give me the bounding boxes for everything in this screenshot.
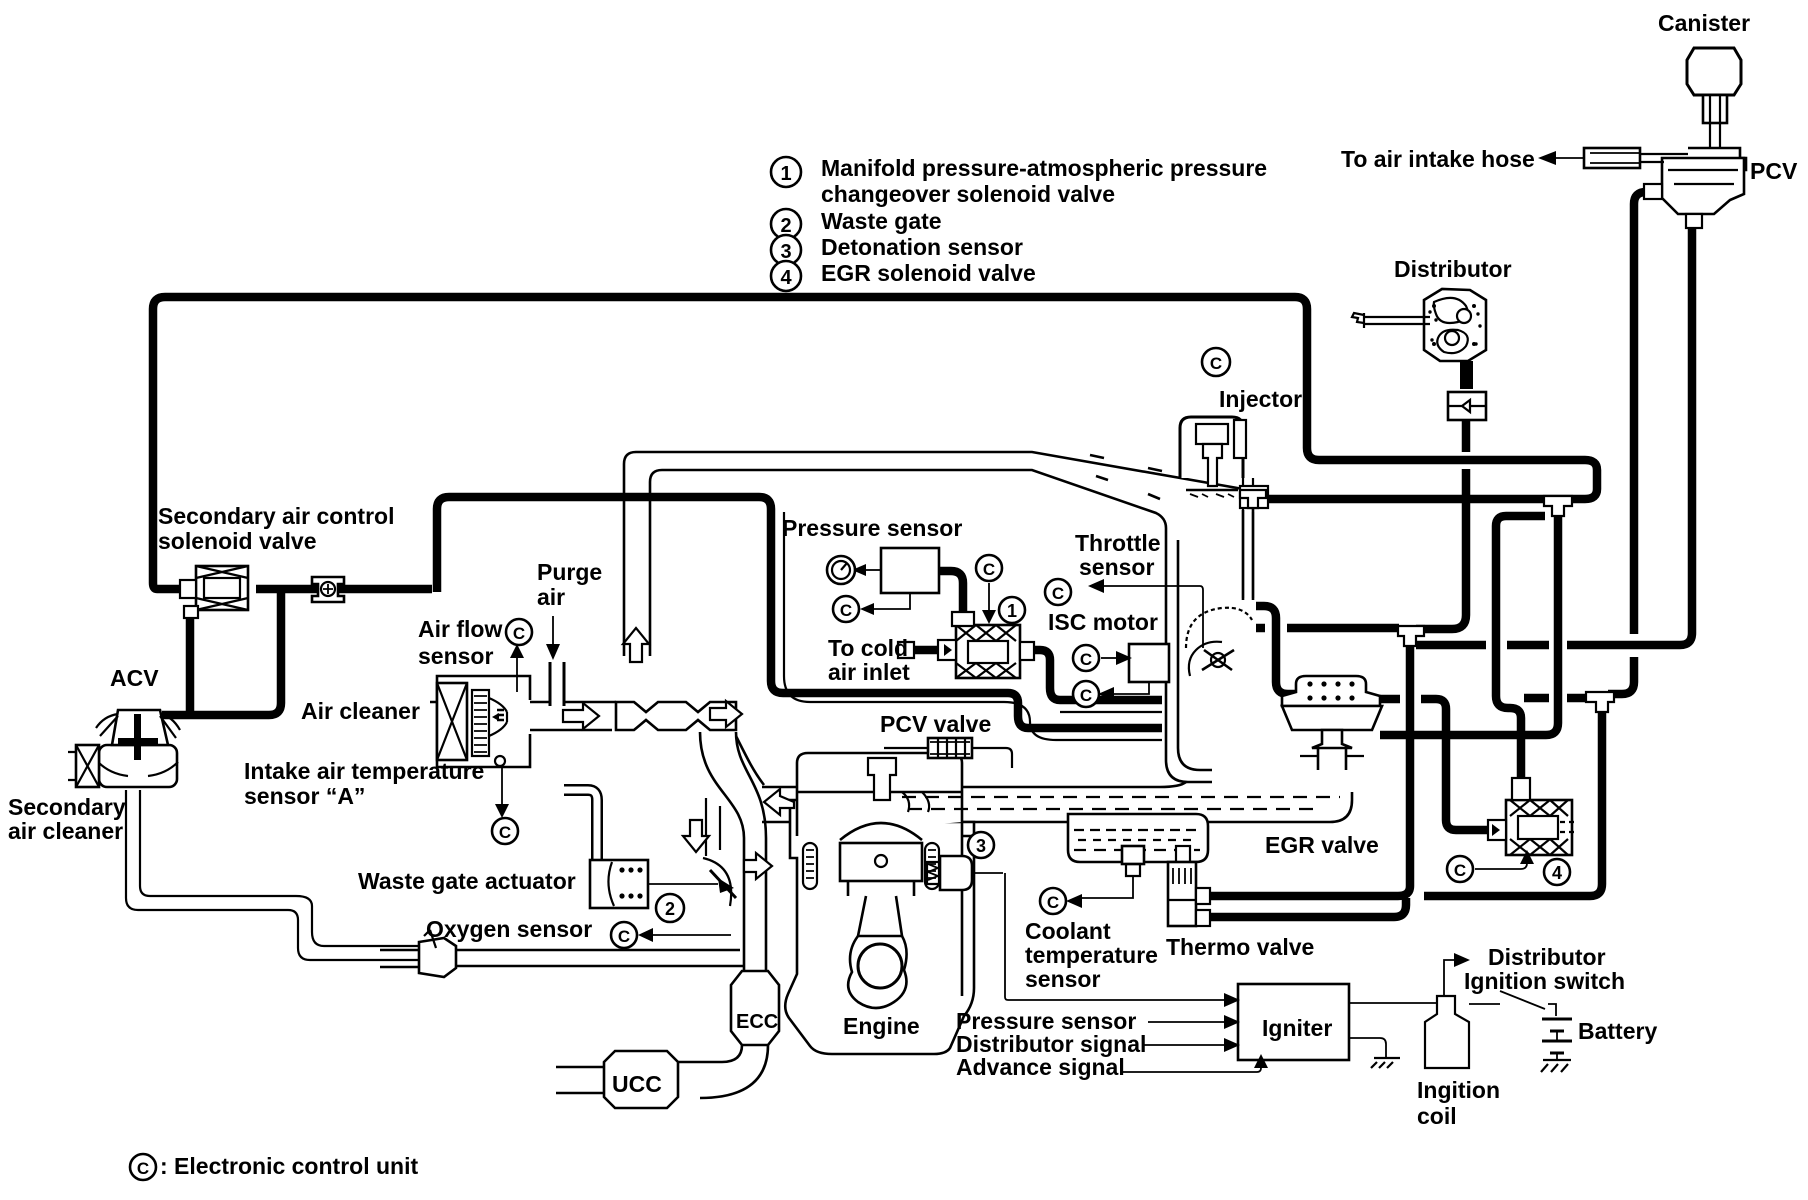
pipe purge air stub <box>549 662 566 706</box>
svg-text:C: C <box>1080 686 1092 705</box>
pipe oxygen sensor exhaust run upper <box>380 949 740 952</box>
pipe throttle-body stub pipe from injector tee <box>1243 508 1253 598</box>
pipe surge tank right wall to throttle body <box>1243 489 1253 600</box>
distributor <box>1352 289 1486 420</box>
pipe turbo up-duct outer wall and top run to surge tank <box>624 452 1243 656</box>
svg-text:C: C <box>1047 893 1059 912</box>
svg-text:air cleaner: air cleaner <box>8 818 123 844</box>
C badge ISC lower with left arrow <box>1073 681 1099 707</box>
air cleaner with air flow sensor <box>430 676 530 767</box>
ignition switch and battery <box>1469 991 1572 1072</box>
svg-text:EGR valve: EGR valve <box>1265 832 1379 858</box>
svg-text:Air cleaner: Air cleaner <box>301 698 420 724</box>
pipe intake manifold EGR dashed passage upper <box>902 796 1340 798</box>
svg-text:Detonation sensor: Detonation sensor <box>821 234 1023 260</box>
svg-text:Secondary: Secondary <box>8 794 126 820</box>
legend circled 1 <box>771 157 801 187</box>
svg-text:air inlet: air inlet <box>828 659 910 685</box>
pipe intake manifold lower wall <box>762 792 1352 822</box>
svg-text:Secondary air control: Secondary air control <box>158 503 394 529</box>
svg-text:C: C <box>499 823 511 842</box>
hose F1 tee drop to EGR bottom line <box>1380 503 1558 735</box>
pipe thin inner wall along cold-air-inlet hose <box>784 512 1162 740</box>
circled 1 at solenoid <box>999 597 1025 623</box>
pipe waste gate actuator hose <box>564 790 597 864</box>
svg-text:sensor: sensor <box>418 643 493 669</box>
svg-text:ISC motor: ISC motor <box>1048 609 1158 635</box>
PCV valve (canister) body <box>1538 148 1746 228</box>
svg-text:sensor: sensor <box>1079 554 1154 580</box>
pipe secondary air cleaner hose inner <box>140 790 420 946</box>
legend circled 4 <box>771 261 801 291</box>
C badge solenoid 4 with wire and up arrow <box>1447 856 1473 882</box>
pipe ISC duct right wall <box>1178 540 1212 770</box>
ISC motor <box>1114 644 1169 694</box>
svg-text:coil: coil <box>1417 1103 1457 1129</box>
pipe injector base down-pipe walls <box>1243 478 1253 488</box>
C badge footer <box>130 1154 156 1180</box>
hose distributor vacuum line down to T1 (break at 462 crossing) <box>1462 418 1471 452</box>
legend circled 2 <box>771 209 801 239</box>
hose F1 left arm down to solenoid 4 top port <box>1496 516 1545 786</box>
hose riser from solenoid line up to purge line <box>437 497 1162 728</box>
hose surge tank port to EGR valve left port <box>1256 606 1302 694</box>
svg-text:Ignition switch: Ignition switch <box>1464 968 1625 994</box>
injector <box>1180 417 1268 508</box>
engine block and piston <box>785 753 974 1054</box>
svg-text:ECC: ECC <box>736 1011 778 1033</box>
hose EGR valve right port to solenoid 4 left port (break at T1 stub) <box>1362 695 1400 704</box>
svg-text:Intake air temperature: Intake air temperature <box>244 758 484 784</box>
svg-text:solenoid valve: solenoid valve <box>158 528 317 554</box>
svg-text:Igniter: Igniter <box>1262 1015 1332 1041</box>
svg-text:UCC: UCC <box>612 1071 662 1097</box>
svg-text:Purge: Purge <box>537 559 602 585</box>
hose T1 stub down to thermo valve upper port <box>1198 630 1410 896</box>
purge air down arrow <box>552 616 554 646</box>
ECC catalytic converter <box>731 971 779 1045</box>
svg-text:1: 1 <box>780 163 791 185</box>
svg-text:sensor “A”: sensor “A” <box>244 783 365 809</box>
canister <box>1687 48 1741 148</box>
thermo valve <box>1168 846 1210 926</box>
hose tee on solenoid line down to ACV <box>162 591 281 715</box>
svg-text:Pressure sensor: Pressure sensor <box>782 515 962 541</box>
svg-text:C: C <box>1210 354 1222 373</box>
svg-text:temperature: temperature <box>1025 942 1158 968</box>
ACV valve assembly <box>96 710 180 787</box>
C badge oxygen sensor with left arrow <box>611 922 637 948</box>
hollow flow arrows <box>563 628 794 879</box>
svg-text:ACV: ACV <box>110 665 159 691</box>
waste gate valve flap <box>703 858 736 906</box>
solenoid valve 4 (EGR solenoid) <box>1488 778 1574 855</box>
svg-text:Engine: Engine <box>843 1013 920 1039</box>
svg-text:C: C <box>137 1159 149 1178</box>
coolant temperature sensor <box>1080 846 1144 898</box>
svg-text:3: 3 <box>976 836 986 856</box>
C badge throttle sensor with left arrow <box>1045 579 1071 605</box>
hose thermo valve lower port return <box>1198 898 1406 917</box>
ignition coil <box>1349 953 1470 1068</box>
T fitting white cores <box>1240 490 1614 712</box>
hose pressure sensor to solenoid 1 top <box>937 571 963 622</box>
svg-text:Air flow: Air flow <box>418 616 502 642</box>
svg-text:2: 2 <box>780 215 791 237</box>
hose solenoid valve output to riser T <box>256 585 432 594</box>
pipe oxygen sensor exhaust run lower <box>380 966 744 967</box>
turbocharger throttle body venturi junction <box>616 702 766 856</box>
svg-text:Waste gate actuator: Waste gate actuator <box>358 868 576 894</box>
svg-text:Throttle: Throttle <box>1075 530 1161 556</box>
C badge air flow sensor with up arrow <box>506 619 532 645</box>
svg-text:PCV valve: PCV valve <box>880 711 991 737</box>
oxygen sensor <box>419 930 456 977</box>
UCC catalytic converter <box>556 1045 768 1108</box>
svg-text:C: C <box>1052 584 1064 603</box>
C badge injector <box>1202 348 1230 376</box>
igniter box <box>1005 873 1400 1072</box>
svg-text:4: 4 <box>1552 863 1562 883</box>
inline check valve on solenoid line <box>312 577 344 602</box>
svg-text:C: C <box>1080 650 1092 669</box>
hose T1 right arm to PCV bottom port (breaks at crossing verticals) <box>1416 641 1486 650</box>
svg-text:Canister: Canister <box>1658 10 1750 36</box>
throttle sensor mechanism <box>1186 586 1252 676</box>
svg-text:Thermo valve: Thermo valve <box>1166 934 1314 960</box>
svg-text:2: 2 <box>665 899 675 919</box>
svg-text:C: C <box>618 927 630 946</box>
secondary air control solenoid valve body <box>180 566 248 618</box>
pipe exhaust downpipe walls <box>744 838 766 972</box>
svg-text:sensor: sensor <box>1025 966 1100 992</box>
svg-text:Distributor: Distributor <box>1488 944 1606 970</box>
hose secondary-air main loop: solenoid valve to injector base fitting <box>153 297 1597 589</box>
svg-text:Injector: Injector <box>1219 386 1302 412</box>
pipe intake manifold upper wall <box>762 782 1186 787</box>
hose to cold air inlet into solenoid 1 left port <box>911 646 944 655</box>
svg-text:Ingition: Ingition <box>1417 1077 1500 1103</box>
svg-text:C: C <box>513 624 525 643</box>
pipe secondary air cleaner hose outer <box>126 790 420 960</box>
circled 2 waste gate <box>656 894 684 922</box>
svg-text:changeover solenoid valve: changeover solenoid valve <box>821 181 1115 207</box>
detonation sensor <box>925 856 1003 890</box>
water jacket reservoir <box>1068 814 1208 862</box>
hose T2 stub down to thermo return line <box>1424 708 1602 896</box>
secondary air cleaner element <box>68 745 99 787</box>
pipe thin wall below solenoid1 line <box>1060 711 1162 713</box>
svg-text:4: 4 <box>780 267 792 289</box>
svg-text:air: air <box>537 584 565 610</box>
svg-text:: Electronic control unit: : Electronic control unit <box>160 1153 418 1179</box>
PCV valve on rocker cover <box>884 738 1012 768</box>
hose solenoid valve bottom port down to ACV <box>186 606 195 715</box>
svg-text:Oxygen sensor: Oxygen sensor <box>426 916 592 942</box>
svg-text:C: C <box>1454 861 1466 880</box>
svg-text:1: 1 <box>1007 601 1017 621</box>
svg-text:To cold: To cold <box>828 635 908 661</box>
hose T2 left arm (breaks at crossing verticals) <box>1524 694 1549 703</box>
pipe intake manifold EGR dashed passage lower <box>908 808 1322 810</box>
pipe air cleaner outlet duct lower wall <box>530 729 612 732</box>
svg-text:Manifold pressure-atmospheric: Manifold pressure-atmospheric pressure <box>821 155 1267 181</box>
surge tank outline <box>1090 455 1162 499</box>
C badge coolant temp with left arrow <box>1040 888 1066 914</box>
pipe turbo up-duct inner wall and inner top run <box>650 470 1212 782</box>
svg-text:To air intake hose: To air intake hose <box>1341 146 1535 172</box>
C badge intake air temp with down arrow <box>492 818 518 844</box>
svg-text:Advance signal: Advance signal <box>956 1054 1125 1080</box>
circled 3 detonation sensor <box>968 832 994 858</box>
svg-text:C: C <box>840 601 852 620</box>
circled 4 solenoid <box>1544 859 1570 885</box>
svg-text:Battery: Battery <box>1578 1018 1657 1044</box>
pipe air cleaner outlet duct upper wall <box>530 701 616 704</box>
legend circled 3 <box>771 235 801 265</box>
pressure sensor <box>827 548 939 615</box>
svg-text:Distributor: Distributor <box>1394 256 1512 282</box>
C badge ISC upper with right arrow <box>1073 645 1099 671</box>
hose solenoid 1 right port to ISC pipe <box>1030 650 1162 700</box>
C badge pressure sensor <box>833 596 859 622</box>
waste gate actuator <box>590 860 734 908</box>
svg-text:EGR solenoid valve: EGR solenoid valve <box>821 260 1036 286</box>
svg-text:C: C <box>983 560 995 579</box>
svg-text:PCV: PCV <box>1750 158 1798 184</box>
C badge solenoid 1 with down arrow <box>976 555 1002 581</box>
solenoid valve 1 (manifold pressure changeover) <box>938 612 1034 678</box>
hose surge tank lower port to T1 fitting (left arm, with crossing break) <box>1256 624 1265 633</box>
svg-text:Coolant: Coolant <box>1025 918 1111 944</box>
hose PCV left port down to T2 right arm <box>1634 192 1656 634</box>
EGR valve <box>1282 676 1382 770</box>
svg-text:Waste gate: Waste gate <box>821 208 942 234</box>
